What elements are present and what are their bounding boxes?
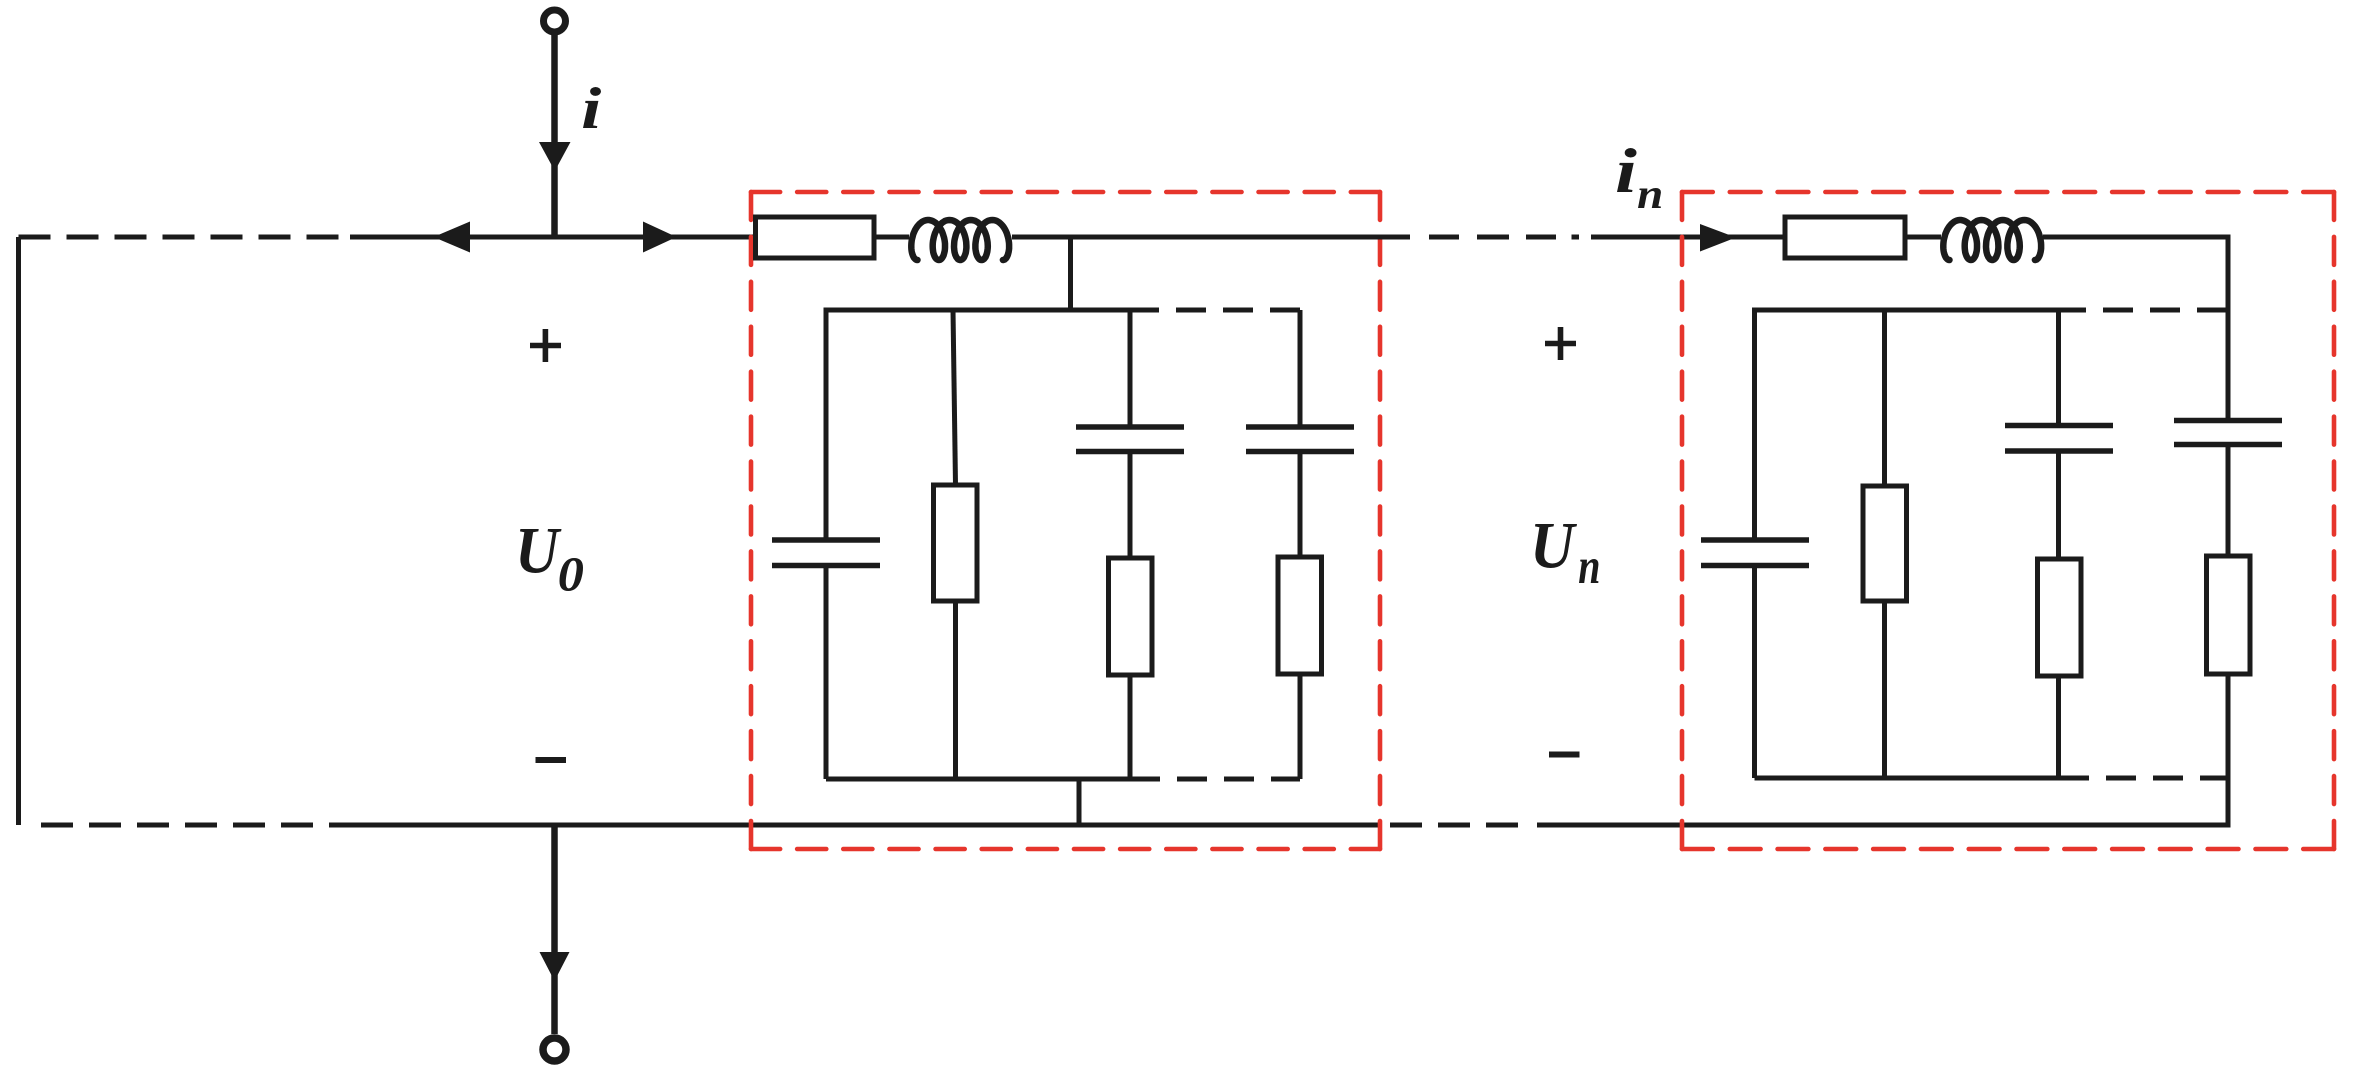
wire: branch 4 bottom — [1298, 674, 1303, 779]
capacitor C2 (branch 3, block 1) — [1076, 424, 1184, 430]
wire: branch 3 top, block 2 — [2056, 310, 2061, 426]
node: label U0 — [520, 529, 561, 573]
wire: top bus dashed left section — [19, 235, 353, 240]
capacitor C1 (branch 1, block 1) — [772, 537, 880, 543]
node: label minus U_n — [1549, 752, 1580, 758]
node: label U_n — [1535, 524, 1577, 568]
wire: inner bottom rail dashed, block 1 — [1160, 777, 1300, 782]
wire: right vertical drop, block 2 — [2226, 237, 2231, 421]
resistor R4n (branch 4, block 2) — [2207, 556, 2251, 674]
capacitor C1n (branch 1, block 2) — [1701, 537, 1809, 543]
capacitor C3n (branch 4 on right vertical, block 2) — [2174, 418, 2282, 424]
wire: bottom bus dashed left section — [25, 823, 335, 828]
block 2 boundary (red dashed box) — [1682, 192, 2334, 849]
wire: R1n to L1n — [1905, 235, 1941, 240]
wire: C2n to R3n — [2056, 451, 2061, 559]
wire: top bus dash-dot between blocks — [1429, 235, 1579, 240]
wire: branch 2 bottom — [953, 601, 958, 779]
resistor R4 (branch 4, block 1) — [1278, 557, 1322, 674]
resistor R2n (branch 2, block 2) — [1863, 486, 1907, 601]
resistor R3n (branch 3, block 2) — [2038, 559, 2082, 676]
wire: inner top rail solid, block 2 — [1755, 310, 2087, 540]
wire: current arrow on bottom lead — [540, 952, 570, 981]
wire: inner top rail dashed, block 1 — [1159, 308, 1300, 313]
wire: inner top rail dashed, block 2 — [2086, 308, 2228, 313]
inductor L1n (series, block 2) — [1943, 220, 2041, 260]
resistor R3 (branch 3, block 1) — [1109, 558, 1153, 675]
wire: inner top rail solid, block 1 — [826, 310, 1159, 540]
wire: top bus solid into block 2 — [1591, 235, 1785, 240]
wire: branch 4 top (from dashed rail corner), block 1 — [1298, 310, 1303, 427]
wire: branch 4 bottom to bottom bus — [2226, 674, 2231, 828]
wire: arrowhead i_n — [1700, 224, 1736, 252]
resistor R1n (series, block 2) — [1785, 217, 1905, 258]
wire: L1n to right vertical — [2043, 235, 2231, 240]
wire: junction drop from top bus to inner rail, block 1 — [1068, 237, 1073, 310]
wire: top bus solid section — [350, 235, 756, 240]
node: bottom output terminal — [543, 1038, 566, 1061]
wire: R1 to L1 — [874, 235, 909, 240]
wire: left arrowhead on top bus — [434, 222, 471, 253]
wire: top terminal lead — [551, 32, 558, 237]
capacitor C3 (branch 4, block 1) — [1246, 424, 1354, 430]
node: top input terminal — [544, 10, 566, 32]
wire: connector from inner bottom rail to bottom bus, block 1 — [1077, 779, 1082, 825]
wire: branch 2 top, block 2 — [1882, 310, 1887, 486]
capacitor C2n (branch 3, block 2) — [2005, 423, 2113, 429]
wire: branch 3 top, block 1 — [1128, 310, 1133, 427]
wire: left vertical edge — [16, 237, 21, 825]
wire: bottom bus solid section — [333, 823, 1379, 828]
resistor R1 (series, block 1) — [756, 217, 875, 258]
node: label plus U0 — [530, 329, 561, 362]
block 1 boundary (red dashed box) — [751, 192, 1380, 849]
wire: right arrowhead on top bus — [643, 222, 677, 253]
wire: branch 2 top, block 1 — [953, 310, 956, 485]
wire: C3n to R4n — [2226, 445, 2231, 557]
wire: C1n down to inner bottom rail — [1752, 566, 1757, 779]
wire: inner bottom rail solid, block 2 — [1755, 776, 2090, 781]
wire: branch 3 bottom, block 2 — [2056, 676, 2061, 778]
wire: C1 down to inner bottom rail — [824, 566, 829, 780]
wire: branch 3 bottom — [1128, 675, 1133, 779]
wire: current arrow i on lead — [539, 142, 571, 171]
wire: bottom bus dashed between blocks — [1390, 823, 1528, 828]
wire: inner bottom rail solid, block 1 — [826, 777, 1160, 782]
wire: inner bottom rail dashed, block 2 — [2089, 776, 2228, 781]
resistor R2 (branch 2, block 1) — [934, 485, 978, 601]
wire: L1 to right, exits block 1 — [1012, 235, 1410, 240]
inductor L1 (series, block 1) — [911, 220, 1009, 260]
node: label plus U_n — [1545, 327, 1576, 360]
node: label minus U0 — [536, 757, 567, 763]
wire: C2 to R3 — [1128, 452, 1133, 559]
node: label i_n — [1617, 148, 1637, 192]
wire: branch 2 bottom, block 2 — [1882, 601, 1887, 778]
wire: bottom terminal lead — [551, 825, 558, 1034]
wire: bottom bus solid to block 2 — [1537, 823, 2230, 828]
wire: C3 to R4 — [1298, 452, 1303, 558]
node: label i — [583, 87, 601, 128]
